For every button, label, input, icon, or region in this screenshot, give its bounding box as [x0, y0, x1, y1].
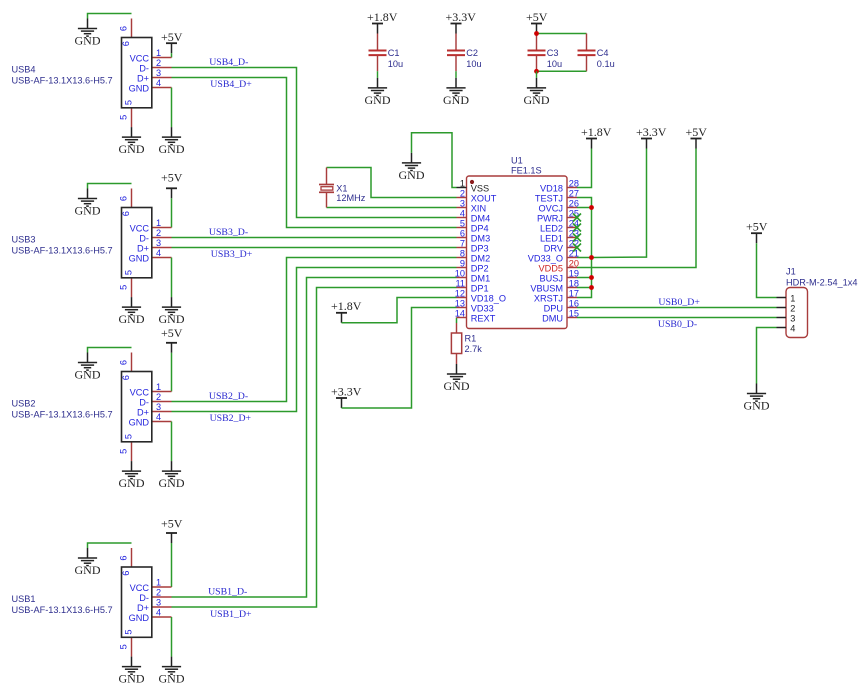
- svg-text:DPU: DPU: [544, 303, 563, 313]
- svg-text:GND: GND: [119, 142, 145, 156]
- svg-text:GND: GND: [119, 476, 145, 490]
- svg-text:1: 1: [156, 382, 161, 392]
- wire USB3 +5V to VCC: [171, 198, 173, 227]
- svg-text:1: 1: [460, 179, 465, 189]
- junction VBUSM: [589, 285, 594, 290]
- net label USB2_D-: [209, 391, 248, 402]
- label USB3 reference: [12, 235, 36, 245]
- power flag C3 +5V: [526, 10, 548, 34]
- no-connect pin 24: [573, 224, 581, 232]
- ground USB4 pin4: [159, 127, 185, 156]
- svg-text:USB2: USB2: [12, 399, 36, 409]
- wire USB2 shield to GND: [88, 348, 132, 353]
- svg-text:4: 4: [460, 209, 465, 219]
- svg-text:DM3: DM3: [471, 233, 490, 243]
- wire net USB1_D-: [172, 278, 457, 598]
- svg-text:DM4: DM4: [471, 213, 490, 223]
- svg-text:GND: GND: [399, 168, 425, 182]
- power flag C1 +1.8V: [367, 10, 398, 34]
- svg-text:VD33_O: VD33_O: [528, 253, 563, 263]
- USB3 pin 3 stub: [152, 247, 172, 249]
- USB2 pin 3 stub: [152, 411, 172, 413]
- svg-text:DP4: DP4: [471, 223, 489, 233]
- svg-text:10u: 10u: [388, 59, 403, 69]
- wire USB2 +5V to VCC: [171, 353, 173, 392]
- U1 pin 18 VBUSM: [530, 279, 579, 294]
- wire +3.3V to VD33: [342, 308, 457, 409]
- power flag USB3 VCC: [161, 171, 183, 199]
- svg-text:4: 4: [156, 78, 161, 88]
- ground USB3 pin5: [119, 297, 145, 326]
- svg-text:C1: C1: [388, 48, 400, 58]
- wire REXT to R1: [456, 318, 458, 324]
- ground C3: [524, 78, 550, 107]
- wire VD18 to +1.8V: [577, 149, 592, 188]
- USB1 pin 2 stub: [152, 596, 172, 598]
- wire XOUT to X1: [327, 168, 457, 198]
- ground USB1 pin5: [119, 657, 145, 686]
- U1 pin 24 LED2: [540, 219, 579, 234]
- svg-text:DRV: DRV: [544, 243, 564, 253]
- svg-text:12: 12: [455, 289, 465, 299]
- wire C3/C4 bottom: [537, 70, 587, 72]
- svg-text:C2: C2: [466, 48, 478, 58]
- svg-text:1: 1: [156, 48, 161, 58]
- ground J1: [744, 384, 770, 413]
- svg-text:VCC: VCC: [130, 583, 150, 593]
- wire +3.3V to strap bus: [592, 149, 647, 258]
- svg-text:6: 6: [119, 26, 129, 31]
- svg-text:GND: GND: [119, 312, 145, 326]
- svg-text:USB4_D-: USB4_D-: [209, 57, 248, 68]
- wire +5V to J1 pin1: [757, 243, 777, 297]
- label J1 footprint: [786, 277, 857, 287]
- junction VD33_O: [589, 255, 594, 260]
- wire VBUSM branch: [577, 287, 592, 289]
- power flag VD18_O: [331, 299, 362, 323]
- svg-text:USB2_D-: USB2_D-: [209, 391, 248, 402]
- wire net USB0_D+: [577, 307, 777, 309]
- svg-text:6: 6: [121, 211, 131, 216]
- net label USB3_D-: [209, 227, 248, 238]
- svg-text:USB1: USB1: [12, 594, 36, 604]
- svg-text:3: 3: [156, 402, 161, 412]
- svg-text:5: 5: [119, 115, 129, 120]
- svg-text:U1: U1: [511, 156, 523, 166]
- wire OVCJ branch: [577, 207, 592, 209]
- U1 pin 25 PWRJ: [537, 209, 579, 224]
- U1 pin 7 DP3: [457, 239, 489, 254]
- svg-text:10: 10: [455, 269, 465, 279]
- U1 pin 26 OVCJ: [538, 199, 579, 214]
- ground USB1 pin4: [159, 657, 185, 686]
- svg-text:2: 2: [156, 58, 161, 68]
- net label USB1_D-: [208, 586, 247, 597]
- power flag C2 +3.3V: [446, 10, 477, 34]
- label USB3 footprint: [12, 246, 113, 256]
- U1 pin 5 DP4: [457, 219, 489, 234]
- USB2 pin 5 stub: [131, 442, 133, 461]
- svg-text:D+: D+: [137, 603, 149, 613]
- wire VD33_O branch: [577, 257, 592, 259]
- svg-text:GND: GND: [159, 476, 185, 490]
- svg-text:+5V: +5V: [161, 326, 183, 340]
- wire USB3 pin4 to GND: [171, 258, 173, 298]
- USB4 pin 2 stub: [152, 67, 172, 69]
- svg-text:5: 5: [123, 100, 133, 105]
- wire net USB4_D-: [172, 68, 457, 218]
- svg-text:VD18_O: VD18_O: [471, 293, 506, 303]
- USB3 pin 4 stub: [152, 257, 172, 259]
- svg-text:FE1.1S: FE1.1S: [511, 165, 542, 175]
- svg-text:USB-AF-13.1X13.6-H5.7: USB-AF-13.1X13.6-H5.7: [12, 605, 113, 615]
- svg-text:DM1: DM1: [471, 273, 490, 283]
- wire net USB0_D-: [577, 317, 777, 319]
- svg-text:6: 6: [119, 196, 129, 201]
- wire net USB4_D+: [172, 78, 457, 228]
- svg-text:0.1u: 0.1u: [597, 59, 615, 69]
- svg-text:J1: J1: [786, 266, 796, 276]
- USB2 pin 6 stub: [131, 353, 133, 372]
- svg-text:+5V: +5V: [161, 171, 183, 185]
- svg-text:D+: D+: [137, 243, 149, 253]
- wire net USB3_D+: [172, 247, 457, 249]
- U1 pin 19 BUSJ: [540, 269, 580, 284]
- ground R1: [444, 364, 470, 393]
- wire J1 pin4 to GND: [757, 328, 777, 384]
- power flag USB4 VCC: [161, 30, 183, 53]
- U1 pin 2 XOUT: [457, 189, 497, 204]
- label USB1 footprint: [12, 605, 113, 615]
- label USB2 reference: [12, 399, 36, 409]
- svg-text:DMU: DMU: [542, 313, 563, 323]
- wire +1.8V to VD18_O: [342, 298, 457, 323]
- label USB1 reference: [12, 594, 36, 604]
- wire C3/C4 top: [537, 33, 587, 35]
- svg-text:5: 5: [119, 449, 129, 454]
- U1 pin 10 DM1: [455, 269, 490, 284]
- net label USB4_D-: [209, 57, 248, 68]
- J1 pin 1 stub: [777, 297, 787, 299]
- capacitor C4 0.1u: [578, 34, 615, 72]
- wire USB4 pin4 to GND: [171, 88, 173, 128]
- J1 pin 4 stub: [777, 327, 787, 329]
- svg-text:REXT: REXT: [471, 313, 496, 323]
- svg-text:X1: X1: [336, 183, 347, 193]
- junction C3 top: [534, 31, 539, 36]
- USB1 pin 4 stub: [152, 616, 172, 618]
- svg-text:USB-AF-13.1X13.6-H5.7: USB-AF-13.1X13.6-H5.7: [12, 76, 113, 86]
- wire BUSJ branch: [577, 277, 592, 279]
- svg-text:4: 4: [156, 608, 161, 618]
- U1 pin 3 XIN: [457, 199, 487, 214]
- svg-text:+3.3V: +3.3V: [446, 10, 477, 24]
- USB2 pin numbers: [119, 360, 162, 454]
- net label USB3_D+: [211, 249, 253, 260]
- svg-text:DM2: DM2: [471, 253, 490, 263]
- connector USB1 body: [121, 567, 152, 637]
- ground C1: [365, 78, 391, 107]
- ground U1 VSS: [399, 153, 425, 182]
- svg-text:OVCJ: OVCJ: [538, 203, 563, 213]
- no-connect pin 22: [573, 244, 581, 252]
- svg-text:C3: C3: [547, 48, 559, 58]
- svg-text:GND: GND: [129, 417, 150, 427]
- svg-text:VBUSM: VBUSM: [530, 283, 563, 293]
- USB4 pin 5 stub: [131, 108, 133, 127]
- J1 pin 2 stub: [777, 307, 787, 309]
- svg-text:PWRJ: PWRJ: [537, 213, 563, 223]
- svg-text:VD33: VD33: [471, 303, 494, 313]
- svg-text:3: 3: [156, 238, 161, 248]
- svg-text:4: 4: [790, 323, 795, 333]
- USB3 pin 5 stub: [131, 278, 133, 297]
- USB3 pin 6 stub: [131, 189, 133, 208]
- svg-text:USB-AF-13.1X13.6-H5.7: USB-AF-13.1X13.6-H5.7: [12, 410, 113, 420]
- wire XIN to X1: [327, 207, 457, 209]
- label J1 reference: [786, 266, 796, 276]
- U1 pin 20 VDD5: [538, 259, 579, 274]
- svg-text:3: 3: [156, 68, 161, 78]
- power flag J1: [746, 220, 768, 244]
- svg-text:D-: D-: [139, 63, 149, 73]
- svg-text:DP3: DP3: [471, 243, 489, 253]
- USB1 pin 5 stub: [131, 637, 133, 656]
- USB1 pin numbers: [119, 555, 162, 649]
- svg-text:5: 5: [123, 629, 133, 634]
- svg-text:9: 9: [460, 259, 465, 269]
- net label USB2_D+: [210, 413, 252, 424]
- svg-text:2: 2: [460, 189, 465, 199]
- svg-text:+5V: +5V: [746, 220, 768, 234]
- svg-text:GND: GND: [75, 563, 101, 577]
- net label USB1_D+: [210, 609, 252, 620]
- U1 pin 12 VD18_O: [455, 289, 506, 304]
- connector USB3 body: [121, 208, 152, 278]
- junction C3 bottom: [534, 69, 539, 74]
- svg-text:GND: GND: [75, 34, 101, 48]
- U1 pin 1 marker: [470, 180, 474, 184]
- svg-text:USB4_D+: USB4_D+: [210, 79, 252, 90]
- svg-text:10u: 10u: [466, 59, 481, 69]
- svg-text:D+: D+: [137, 73, 149, 83]
- svg-text:DP2: DP2: [471, 263, 489, 273]
- svg-text:GND: GND: [75, 204, 101, 218]
- svg-text:GND: GND: [443, 93, 469, 107]
- label U1 value FE1.1S: [511, 165, 542, 175]
- U1 pin 17 XRSTJ: [534, 289, 579, 304]
- svg-text:+1.8V: +1.8V: [367, 10, 398, 24]
- svg-text:USB1_D+: USB1_D+: [210, 609, 252, 620]
- svg-text:6: 6: [460, 229, 465, 239]
- U1 pin 16 DPU: [544, 299, 579, 314]
- ground C2: [443, 78, 469, 107]
- label USB4 footprint: [12, 76, 113, 86]
- svg-text:+5V: +5V: [161, 30, 183, 44]
- svg-text:11: 11: [455, 279, 465, 289]
- U1 pin 14 REXT: [455, 309, 496, 324]
- svg-text:3: 3: [156, 598, 161, 608]
- capacitor C2 10u: [447, 34, 482, 72]
- power flag USB2 VCC: [161, 326, 183, 353]
- label U1 reference: [511, 156, 523, 166]
- svg-text:GND: GND: [159, 672, 185, 686]
- USB4 pin 6 stub: [131, 19, 133, 38]
- connector USB4 body: [121, 38, 152, 108]
- U1 pin 15 DMU: [542, 309, 579, 324]
- ground USB2 shield: [75, 353, 101, 382]
- svg-text:+5V: +5V: [161, 517, 183, 531]
- svg-text:D-: D-: [139, 233, 149, 243]
- USB2 pin 1 stub: [152, 391, 172, 393]
- svg-text:USB4: USB4: [12, 65, 36, 75]
- svg-text:GND: GND: [129, 613, 150, 623]
- svg-text:LED2: LED2: [540, 223, 563, 233]
- svg-text:VCC: VCC: [130, 223, 150, 233]
- svg-text:GND: GND: [444, 379, 470, 393]
- svg-text:D-: D-: [139, 397, 149, 407]
- svg-text:6: 6: [119, 555, 129, 560]
- svg-text:3: 3: [790, 313, 795, 323]
- label USB2 footprint: [12, 410, 113, 420]
- svg-text:2.7k: 2.7k: [465, 344, 483, 354]
- svg-text:+5V: +5V: [686, 125, 708, 139]
- U1 pin 11 DP1: [455, 279, 488, 294]
- svg-text:GND: GND: [129, 253, 150, 263]
- wire strap bus TESTJ-XRSTJ: [577, 198, 592, 298]
- wire net USB2_D-: [172, 258, 457, 402]
- no-connect pin 25: [573, 214, 581, 222]
- svg-text:5: 5: [123, 270, 133, 275]
- svg-text:HDR-M-2.54_1x4: HDR-M-2.54_1x4: [786, 277, 857, 287]
- svg-text:USB3_D-: USB3_D-: [209, 227, 248, 238]
- svg-text:4: 4: [156, 412, 161, 422]
- svg-text:GND: GND: [524, 93, 550, 107]
- wire C2 to GND: [455, 71, 457, 78]
- svg-text:USB1_D-: USB1_D-: [208, 586, 247, 597]
- svg-text:USB0_D-: USB0_D-: [658, 319, 697, 330]
- svg-text:GND: GND: [159, 312, 185, 326]
- ground USB4 pin5: [119, 127, 145, 156]
- svg-text:VD18: VD18: [540, 183, 563, 193]
- svg-text:VDD5: VDD5: [538, 263, 563, 273]
- USB3 pin 2 stub: [152, 237, 172, 239]
- svg-text:2: 2: [156, 392, 161, 402]
- U1 pin 6 DM3: [457, 229, 491, 244]
- wire USB1 shield to GND: [88, 543, 132, 548]
- svg-text:4: 4: [156, 248, 161, 258]
- svg-text:+1.8V: +1.8V: [331, 299, 362, 313]
- svg-text:+3.3V: +3.3V: [331, 384, 362, 398]
- USB4 pin numbers: [119, 26, 162, 120]
- no-connect pin 23: [573, 234, 581, 242]
- U1 pin 4 DM4: [457, 209, 491, 224]
- wire USB1 pin4 to GND: [171, 617, 173, 657]
- wire USB1 +5V to VCC: [171, 543, 173, 587]
- U1 pin 1 VSS: [457, 179, 490, 194]
- svg-text:+5V: +5V: [526, 10, 548, 24]
- svg-text:13: 13: [455, 299, 465, 309]
- USB2 pin 2 stub: [152, 401, 172, 403]
- svg-text:GND: GND: [75, 368, 101, 382]
- J1 pin 3 stub: [777, 317, 787, 319]
- svg-text:1: 1: [156, 218, 161, 228]
- power flag VDD5: [686, 125, 708, 149]
- U1 pin 21 VD33_O: [528, 249, 579, 264]
- svg-text:USB3_D+: USB3_D+: [211, 249, 253, 260]
- svg-text:VCC: VCC: [130, 387, 150, 397]
- label USB4 reference: [12, 65, 36, 75]
- ground USB2 pin5: [119, 461, 145, 490]
- U1 pin 13 VD33: [455, 299, 494, 314]
- wire USB4 shield to GND: [88, 14, 132, 19]
- USB4 pin 1 stub: [152, 57, 172, 59]
- svg-text:LED1: LED1: [540, 233, 563, 243]
- USB4 pin 3 stub: [152, 77, 172, 79]
- svg-text:14: 14: [455, 309, 465, 319]
- capacitor C3 10u: [528, 34, 563, 72]
- ground USB4 shield: [75, 19, 101, 48]
- connector J1 body: [786, 288, 808, 338]
- U1 pin 27 TESTJ: [535, 189, 579, 204]
- svg-text:GND: GND: [159, 142, 185, 156]
- svg-text:GND: GND: [119, 672, 145, 686]
- USB1 pin 6 stub: [131, 548, 133, 567]
- svg-text:5: 5: [123, 434, 133, 439]
- svg-text:7: 7: [460, 239, 465, 249]
- svg-text:10u: 10u: [547, 59, 562, 69]
- svg-text:USB2_D+: USB2_D+: [210, 413, 252, 424]
- U1 pin 23 LED1: [540, 229, 579, 244]
- power flag VD18: [581, 125, 612, 149]
- svg-text:12MHz: 12MHz: [336, 193, 366, 203]
- svg-text:XOUT: XOUT: [471, 193, 497, 203]
- wire VSS to GND: [412, 133, 457, 188]
- wire C3 to GND: [536, 71, 538, 78]
- USB4 pin 4 stub: [152, 87, 172, 89]
- wire USB3 shield to GND: [88, 184, 132, 189]
- junction BUSJ: [589, 275, 594, 280]
- svg-text:6: 6: [121, 375, 131, 380]
- net label USB0_D-: [658, 319, 697, 330]
- svg-text:USB0_D+: USB0_D+: [658, 297, 700, 308]
- crystal X1 12MHz: [319, 168, 366, 208]
- svg-text:DP1: DP1: [471, 283, 489, 293]
- U1 pin 9 DP2: [457, 259, 489, 274]
- svg-text:2: 2: [156, 228, 161, 238]
- ground USB3 pin4: [159, 297, 185, 326]
- USB3 pin numbers: [119, 196, 162, 290]
- svg-text:XIN: XIN: [471, 203, 486, 213]
- wire C1 to GND: [377, 71, 379, 78]
- svg-text:+1.8V: +1.8V: [581, 125, 612, 139]
- wire net USB1_D+: [172, 288, 457, 608]
- USB3 pin 1 stub: [152, 227, 172, 229]
- svg-text:+3.3V: +3.3V: [636, 125, 667, 139]
- capacitor C1 10u: [369, 34, 404, 72]
- svg-text:GND: GND: [365, 93, 391, 107]
- svg-text:1: 1: [790, 293, 795, 303]
- svg-text:D+: D+: [137, 407, 149, 417]
- net label USB4_D+: [210, 79, 252, 90]
- svg-text:5: 5: [119, 644, 129, 649]
- ground USB2 pin4: [159, 461, 185, 490]
- wire net USB2_D+: [172, 268, 457, 412]
- USB1 pin 3 stub: [152, 606, 172, 608]
- power flag VD33_O: [636, 125, 667, 149]
- svg-text:GND: GND: [744, 399, 770, 413]
- svg-text:1: 1: [156, 578, 161, 588]
